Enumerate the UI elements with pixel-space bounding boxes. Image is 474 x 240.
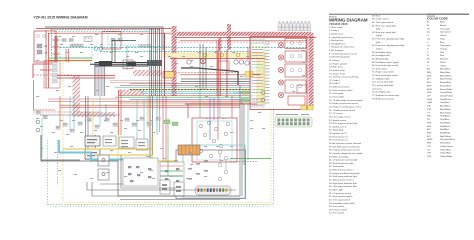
svg-text:60. Turn signal switch: 60. Turn signal switch: [372, 21, 394, 24]
svg-text:57. Horn switch: 57. Horn switch: [329, 212, 345, 215]
main vertical harness bundle: [150, 28, 162, 96]
svg-text:75. License plate light: 75. License plate light: [372, 84, 394, 87]
wire green bottom: [168, 140, 183, 176]
green connector bits: [164, 120, 178, 126]
wire red rail 4: [180, 74, 260, 76]
connector: [69, 129, 74, 132]
svg-text:41. Oil pressure warning light: 41. Oil pressure warning light: [329, 159, 358, 162]
svg-text:Light green: Light green: [440, 44, 452, 47]
svg-text:48. High beam indicator light: 48. High beam indicator light: [329, 182, 357, 185]
svg-text:Y/G: Y/G: [427, 146, 431, 148]
wire red vert 2: [48, 33, 50, 88]
svg-text:59. Clutch switch: 59. Clutch switch: [372, 18, 389, 21]
harness hatched vertical right: [309, 33, 314, 110]
meter box teal: [183, 145, 245, 198]
connector: [62, 123, 67, 126]
wire teal dashed rail 1: [60, 47, 307, 49]
wire red vert small a: [65, 49, 67, 62]
svg-text:Y/R: Y/R: [427, 153, 431, 155]
svg-text:R/B: R/B: [427, 126, 431, 128]
connector: [104, 118, 109, 121]
wire red dashed low: [33, 111, 100, 113]
connector strip small: [139, 45, 151, 48]
svg-text:40. Meter assembly: 40. Meter assembly: [329, 155, 349, 158]
svg-text:2. Diode 1: 2. Diode 1: [329, 30, 340, 32]
connector strip: [70, 44, 83, 47]
svg-text:22. Fuel sender: 22. Fuel sender: [329, 96, 344, 99]
svg-text:45. Engine trouble warning lig: 45. Engine trouble warning light: [329, 172, 360, 175]
svg-text:Red/Blue: Red/Blue: [440, 129, 450, 131]
svg-text:62. Rear turn signal light: 62. Rear turn signal light: [372, 31, 396, 34]
wire red vert small b: [68, 49, 70, 62]
fuse 2: [37, 50, 42, 54]
svg-text:Pink/Blue: Pink/Blue: [440, 119, 450, 121]
svg-text:31. Ignition coil #1: 31. Ignition coil #1: [329, 125, 347, 128]
harness dark blob: [147, 60, 162, 66]
wire red top: [36, 28, 171, 30]
svg-text:Pink/White: Pink/White: [440, 121, 451, 124]
svg-text:34. Fuel injector #1: 34. Fuel injector #1: [329, 135, 348, 138]
svg-text:Br: Br: [427, 24, 429, 27]
wire red dashed rail: [163, 72, 240, 74]
svg-text:Gray/Red: Gray/Red: [440, 101, 450, 104]
svg-text:30. ECU (engine control unit): 30. ECU (engine control unit): [329, 122, 357, 125]
component circle 2: [200, 58, 206, 64]
green oval connectors mid right: [241, 91, 249, 102]
svg-text:46. Shift timing indicator lig: 46. Shift timing indicator light: [329, 175, 357, 178]
orange connector block: [178, 145, 200, 155]
wire red dashed left: [34, 80, 56, 110]
wire yellow bottom 1: [63, 148, 152, 150]
svg-text:54. Handlebar switch (left): 54. Handlebar switch (left): [329, 202, 355, 205]
coupler slots: [278, 119, 310, 126]
harness hatched pink band: [118, 90, 144, 96]
svg-text:51. Oil pressure switch: 51. Oil pressure switch: [329, 192, 352, 195]
indicator circle B: [261, 98, 265, 102]
wire dark low: [40, 114, 120, 116]
teal dash small: [234, 93, 258, 101]
svg-text:Chocolate: Chocolate: [440, 27, 451, 30]
connector: [86, 118, 91, 121]
yellow pair small: [301, 106, 313, 111]
svg-text:Blue/White: Blue/White: [440, 108, 451, 111]
wire salmon row b: [110, 82, 171, 84]
wire dark bottom 2: [87, 182, 236, 190]
svg-text:55. Pass switch: 55. Pass switch: [329, 205, 345, 208]
svg-text:O: O: [427, 48, 429, 50]
svg-text:Blue/Yellow: Blue/Yellow: [440, 112, 452, 114]
relay circle 1: [234, 60, 238, 64]
main switch circle b: [42, 34, 45, 37]
meter box dark: [176, 150, 246, 199]
svg-text:7. Radiator fan motor fuse: 7. Radiator fan motor fuse: [329, 46, 355, 49]
svg-text:Red/Black: Red/Black: [440, 126, 451, 128]
connector: [94, 125, 99, 128]
svg-text:4. Signaling system fuse: 4. Signaling system fuse: [329, 36, 353, 39]
svg-text:White: White: [440, 61, 446, 64]
svg-text:Black/Red: Black/Red: [440, 72, 451, 74]
sensor circle 2: [36, 128, 40, 132]
wire dark bottom 4: [100, 183, 123, 185]
wire red mid: [48, 60, 92, 62]
right box details: [290, 41, 301, 87]
harness hatched vertical left: [172, 26, 177, 96]
wire red top pump: [185, 103, 257, 105]
fuel pump box red: [192, 118, 237, 162]
wire dark vert pair a: [111, 40, 113, 62]
connector pair A: [61, 39, 66, 42]
wire red top 2: [48, 32, 171, 34]
harness hatched band top: [177, 32, 311, 36]
svg-text:26. Throttle position sensor: 26. Throttle position sensor: [329, 109, 356, 112]
right component boxes: [285, 39, 306, 106]
relay circle 3: [245, 61, 249, 65]
wire green segment: [95, 135, 97, 148]
switch circle 2: [102, 173, 105, 176]
pump circles: [199, 121, 230, 158]
scan lightening overlay: [0, 20, 326, 220]
svg-text:18. Diode 3: 18. Diode 3: [329, 83, 341, 85]
svg-text:53. Turn signal switch: 53. Turn signal switch: [329, 198, 351, 201]
color code rule: [427, 13, 469, 15]
svg-text:23. Throttle body sensor assem: 23. Throttle body sensor assembly: [329, 99, 363, 102]
svg-text:Yellow/Blue: Yellow/Blue: [440, 149, 452, 151]
svg-text:Pink/Black: Pink/Black: [440, 116, 451, 118]
fuse box link wires: [52, 40, 60, 54]
main harness bundle horizontal: [115, 84, 250, 103]
svg-text:G: G: [427, 35, 429, 37]
svg-text:L/B: L/B: [427, 106, 431, 108]
svg-text:77. Radiator fan motor relay: 77. Radiator fan motor relay: [372, 94, 400, 97]
box glyphs: [162, 184, 181, 192]
connector pin table: [278, 24, 311, 31]
wire green: [48, 57, 92, 59]
svg-text:Sky blue/White: Sky blue/White: [440, 138, 455, 141]
starter cable bundle: [90, 61, 158, 67]
svg-text:Sb/W: Sb/W: [427, 139, 433, 141]
svg-text:Brown/Red: Brown/Red: [440, 84, 452, 87]
border yellow dashed: [63, 110, 271, 203]
svg-text:27. O2 sensor: 27. O2 sensor: [329, 112, 343, 115]
svg-text:16. Starting circuit cut-off r: 16. Starting circuit cut-off relay: [329, 76, 359, 79]
relay circle 2: [239, 60, 243, 64]
wire dark bottom 1: [41, 135, 240, 196]
svg-text:73. Tail/brake light: 73. Tail/brake light: [372, 77, 390, 80]
connector: [146, 122, 151, 125]
svg-text:Brown/Blue: Brown/Blue: [440, 81, 452, 84]
svg-text:64. Front turn signal/position: 64. Front turn signal/position light: [372, 44, 405, 47]
diode symbol 1: [94, 47, 98, 51]
svg-text:11. Battery: 11. Battery: [329, 59, 340, 62]
wire brown rail: [60, 104, 240, 106]
svg-text:(left): (left): [376, 28, 381, 31]
svg-text:Brown/White: Brown/White: [440, 88, 453, 91]
ECU box outline: [250, 37, 307, 110]
svg-text:43. Tachometer: 43. Tachometer: [329, 165, 344, 168]
svg-text:Dark green: Dark green: [440, 31, 452, 34]
svg-text:YZF-R1 2015 WIRING DIAGRAM: YZF-R1 2015 WIRING DIAGRAM: [34, 16, 88, 20]
svg-text:B/R: B/R: [427, 72, 431, 74]
svg-text:Gray/Green: Gray/Green: [440, 98, 452, 101]
border sky dashed: [50, 206, 271, 208]
connector: [112, 123, 117, 126]
svg-text:10. Rectifier/regulator: 10. Rectifier/regulator: [329, 56, 350, 59]
svg-text:W/R: W/R: [427, 143, 432, 145]
svg-text:Gy/R: Gy/R: [427, 102, 432, 104]
wire blue bottom: [209, 120, 211, 140]
wire maroon vert: [164, 33, 166, 96]
connector: [155, 117, 160, 120]
svg-text:G/Y: G/Y: [427, 96, 431, 98]
wire dark rail 2: [181, 81, 250, 83]
connector: [55, 126, 60, 129]
wire sky blue staircase: [59, 140, 129, 160]
switch circle: [102, 159, 105, 162]
harness continuation wires: [119, 90, 160, 163]
wire dark horiz: [112, 40, 136, 42]
small yellow box: [245, 72, 253, 78]
svg-text:Orange: Orange: [440, 47, 448, 50]
harness hatched vertical mid 2: [218, 38, 222, 50]
svg-text:Black: Black: [440, 22, 446, 24]
meter internals: [213, 150, 227, 189]
coupler label specks: [276, 114, 309, 115]
pin table digits: [279, 22, 311, 23]
svg-text:78. Radiator fan motor: 78. Radiator fan motor: [372, 97, 394, 100]
ECU pin strip: [252, 40, 263, 105]
svg-text:42. Neutral indicator light: 42. Neutral indicator light: [329, 162, 354, 165]
diagnostic coupler body: [275, 117, 312, 127]
svg-text:76. Headlight relay: 76. Headlight relay: [372, 91, 391, 94]
junction connector column: [53, 62, 58, 83]
small red box right: [297, 85, 307, 93]
svg-text:52. Gear position switch: 52. Gear position switch: [329, 195, 353, 198]
svg-text:L/Y: L/Y: [427, 112, 431, 114]
wire teal dashed rail 3: [127, 46, 170, 48]
gray harness band vertical: [95, 62, 106, 96]
svg-text:61. Rear turn signal light: 61. Rear turn signal light: [372, 24, 396, 27]
svg-text:38. Coolant temperature sensor: 38. Coolant temperature sensor: [329, 149, 360, 152]
component circle 1: [187, 60, 191, 64]
wire red pair: [70, 75, 115, 77]
fuse 1: [37, 44, 42, 48]
svg-text:49. Turn signal indicator ligh: 49. Turn signal indicator light: [329, 185, 357, 188]
wire dark bottom 2b: [92, 182, 176, 196]
box text marks: [87, 139, 97, 156]
svg-text:67. Auxiliary light: 67. Auxiliary light: [372, 57, 389, 60]
svg-text:Brown: Brown: [440, 24, 447, 27]
wire dark vert pair b: [114, 40, 116, 62]
wire dark bottom 5: [120, 199, 240, 201]
svg-text:Green: Green: [440, 34, 447, 37]
svg-text:6. Headlight fuse: 6. Headlight fuse: [329, 42, 346, 45]
svg-text:5. Backup fuse: 5. Backup fuse: [329, 40, 344, 42]
left feed wires to meter: [160, 166, 183, 176]
svg-text:Black/Blue: Black/Blue: [440, 69, 451, 71]
small text specks: [105, 139, 145, 147]
svg-text:65. Headlight (right): 65. Headlight (right): [372, 51, 391, 54]
relay box red: [102, 32, 121, 49]
vertical drop wires: [42, 50, 248, 202]
wire yellow: [48, 59, 92, 61]
wire green mid right: [230, 158, 271, 160]
small yellow box 2: [163, 72, 174, 79]
tiny label specks: [36, 34, 305, 179]
svg-text:58. Horn: 58. Horn: [372, 14, 381, 17]
ECU strip border: [251, 38, 264, 107]
connector pair E: [117, 38, 122, 41]
wire red rail 3: [180, 40, 307, 42]
svg-text:72. Rear brake light switch: 72. Rear brake light switch: [372, 74, 399, 77]
connector grid box: [84, 37, 92, 42]
throttle body box cyan: [197, 121, 232, 160]
svg-text:Black/White: Black/White: [440, 74, 452, 77]
svg-text:17. Diode 2: 17. Diode 2: [329, 80, 341, 82]
svg-text:47. Multi-function meter 2: 47. Multi-function meter 2: [329, 179, 354, 182]
frame dark top line: [45, 27, 163, 50]
svg-text:P/B: P/B: [427, 116, 431, 118]
connector: [131, 123, 136, 126]
svg-text:20. Gear position switch: 20. Gear position switch: [329, 89, 353, 92]
vertical wires center: [127, 41, 248, 96]
sensor boxes right of coils: [103, 136, 148, 150]
svg-text:68. Handlebar switch (right): 68. Handlebar switch (right): [372, 61, 399, 64]
junction red box: [44, 61, 60, 89]
sensor circle 1: [36, 120, 40, 124]
connector pair D: [110, 38, 115, 41]
fuse box outline: [34, 31, 56, 62]
svg-text:66. Headlight (left): 66. Headlight (left): [372, 54, 390, 57]
handlebar switch box left: [123, 158, 184, 190]
yellow comp 2: [220, 53, 223, 56]
svg-text:12. Engine ground: 12. Engine ground: [329, 62, 348, 65]
svg-text:Yellow: Yellow: [440, 65, 447, 67]
wire red junction out: [57, 75, 70, 77]
connector pair C: [85, 39, 90, 42]
legend list column 2: [372, 14, 405, 100]
svg-text:50. Meter light: 50. Meter light: [329, 188, 343, 191]
svg-text:1. Main switch: 1. Main switch: [329, 26, 344, 29]
svg-text:Blue: Blue: [440, 42, 445, 44]
connector: [35, 111, 40, 114]
svg-text:15. Starter motor: 15. Starter motor: [329, 72, 346, 75]
wire dark vert: [54, 36, 56, 62]
svg-text:28. Lean angle sensor: 28. Lean angle sensor: [329, 115, 351, 118]
wire red vert: [45, 30, 47, 88]
harness hatched pink band 2: [133, 70, 162, 76]
svg-text:(right): (right): [376, 34, 382, 37]
svg-text:44. Multi-function meter 1: 44. Multi-function meter 1: [329, 169, 354, 172]
svg-text:COLOR CODE: COLOR CODE: [427, 17, 448, 21]
wire salmon row a: [110, 80, 171, 82]
connector grid marks: [85, 38, 90, 40]
svg-text:25. Intake air temperature sen: 25. Intake air temperature sensor: [329, 105, 361, 108]
harness hatched vertical mid: [227, 24, 231, 50]
connector: [77, 122, 82, 125]
ignition coil boxes: [85, 136, 100, 159]
svg-text:Yellow/White: Yellow/White: [440, 155, 453, 158]
headlight bulbs: [278, 42, 283, 97]
svg-text:33. Ignition coil #2: 33. Ignition coil #2: [329, 132, 347, 135]
meter left specks: [188, 152, 208, 180]
svg-text:56. Dimmer switch: 56. Dimmer switch: [329, 208, 348, 211]
yellow comp 3: [236, 53, 239, 56]
color code list: [427, 22, 455, 158]
legend rule: [329, 13, 469, 15]
svg-text:39. Yamaha diagnostic tool cou: 39. Yamaha diagnostic tool coupler: [329, 152, 363, 155]
color code small mark: [427, 16, 435, 17]
legend list column 1: [329, 26, 363, 215]
switch box dashed 2: [108, 32, 148, 46]
svg-text:13. Main fuse: 13. Main fuse: [329, 67, 343, 69]
svg-text:9. Crankshaft position sensor: 9. Crankshaft position sensor: [329, 52, 358, 55]
component cross: [201, 59, 205, 63]
wire red to junction: [40, 69, 52, 71]
connector pair B: [68, 39, 73, 42]
connector: [124, 118, 129, 121]
wire red vert 3: [56, 36, 58, 62]
border green dashed: [48, 110, 274, 205]
switch contact specks: [128, 166, 179, 182]
svg-text:Br/R: Br/R: [427, 84, 432, 87]
frame teal dashed top 2: [53, 30, 158, 32]
frame teal dashed top 1: [51, 29, 160, 31]
main switch circle a: [36, 34, 39, 37]
svg-text:Green/Yellow: Green/Yellow: [440, 95, 453, 98]
routing band yellow: [163, 53, 266, 57]
ground cable: [181, 68, 238, 85]
small connector boxes left of meter: [160, 180, 184, 196]
svg-text:3. Ignition fuse: 3. Ignition fuse: [329, 32, 344, 35]
routing band yellow vertical: [257, 53, 265, 105]
svg-text:Yellow/Red: Yellow/Red: [440, 153, 452, 155]
harness hatched pink vertical left: [73, 75, 81, 113]
svg-text:14. Starter relay: 14. Starter relay: [329, 69, 345, 72]
wire red rail 2: [175, 37, 316, 39]
relay box red 2: [123, 60, 133, 69]
svg-text:69. Front brake light switch: 69. Front brake light switch: [372, 64, 399, 67]
wire dark bottom left: [41, 135, 80, 160]
wire yellow vert link: [151, 137, 153, 149]
connector: [42, 115, 47, 118]
wire red junction out 2: [57, 77, 115, 79]
meter coupler pill: [195, 186, 231, 195]
wire red rail 1: [170, 58, 265, 60]
wire yellow bottom 2: [95, 155, 178, 161]
wire sky vertical: [105, 104, 107, 120]
svg-text:32. Spark plug: 32. Spark plug: [329, 129, 344, 132]
svg-text:21. Fuel pump: 21. Fuel pump: [329, 93, 344, 95]
wire dark bottom 3: [121, 155, 176, 188]
svg-text:Red/Yellow: Red/Yellow: [440, 136, 451, 138]
svg-text:Yellow/Green: Yellow/Green: [440, 145, 454, 148]
harness hatched pink band 3: [72, 112, 115, 117]
yellow comp 1: [203, 53, 206, 56]
small boxes left of switches: [98, 155, 109, 180]
ECU pin label specks: [265, 41, 270, 104]
frame teal dashed left: [51, 30, 53, 60]
indicator circle A: [261, 91, 265, 95]
svg-text:36. Air induction system solen: 36. Air induction system solenoid: [329, 142, 362, 145]
svg-text:71. Engine stop switch: 71. Engine stop switch: [372, 71, 395, 74]
wire red dashed rail top: [175, 41, 307, 43]
svg-text:B/Y: B/Y: [427, 79, 431, 81]
svg-text:Blue/Black: Blue/Black: [440, 106, 451, 108]
svg-text:Sky blue: Sky blue: [440, 59, 449, 61]
wire salmon dashed left: [33, 74, 72, 76]
diode symbol 2: [99, 47, 103, 51]
switch box dashed: [60, 47, 92, 58]
